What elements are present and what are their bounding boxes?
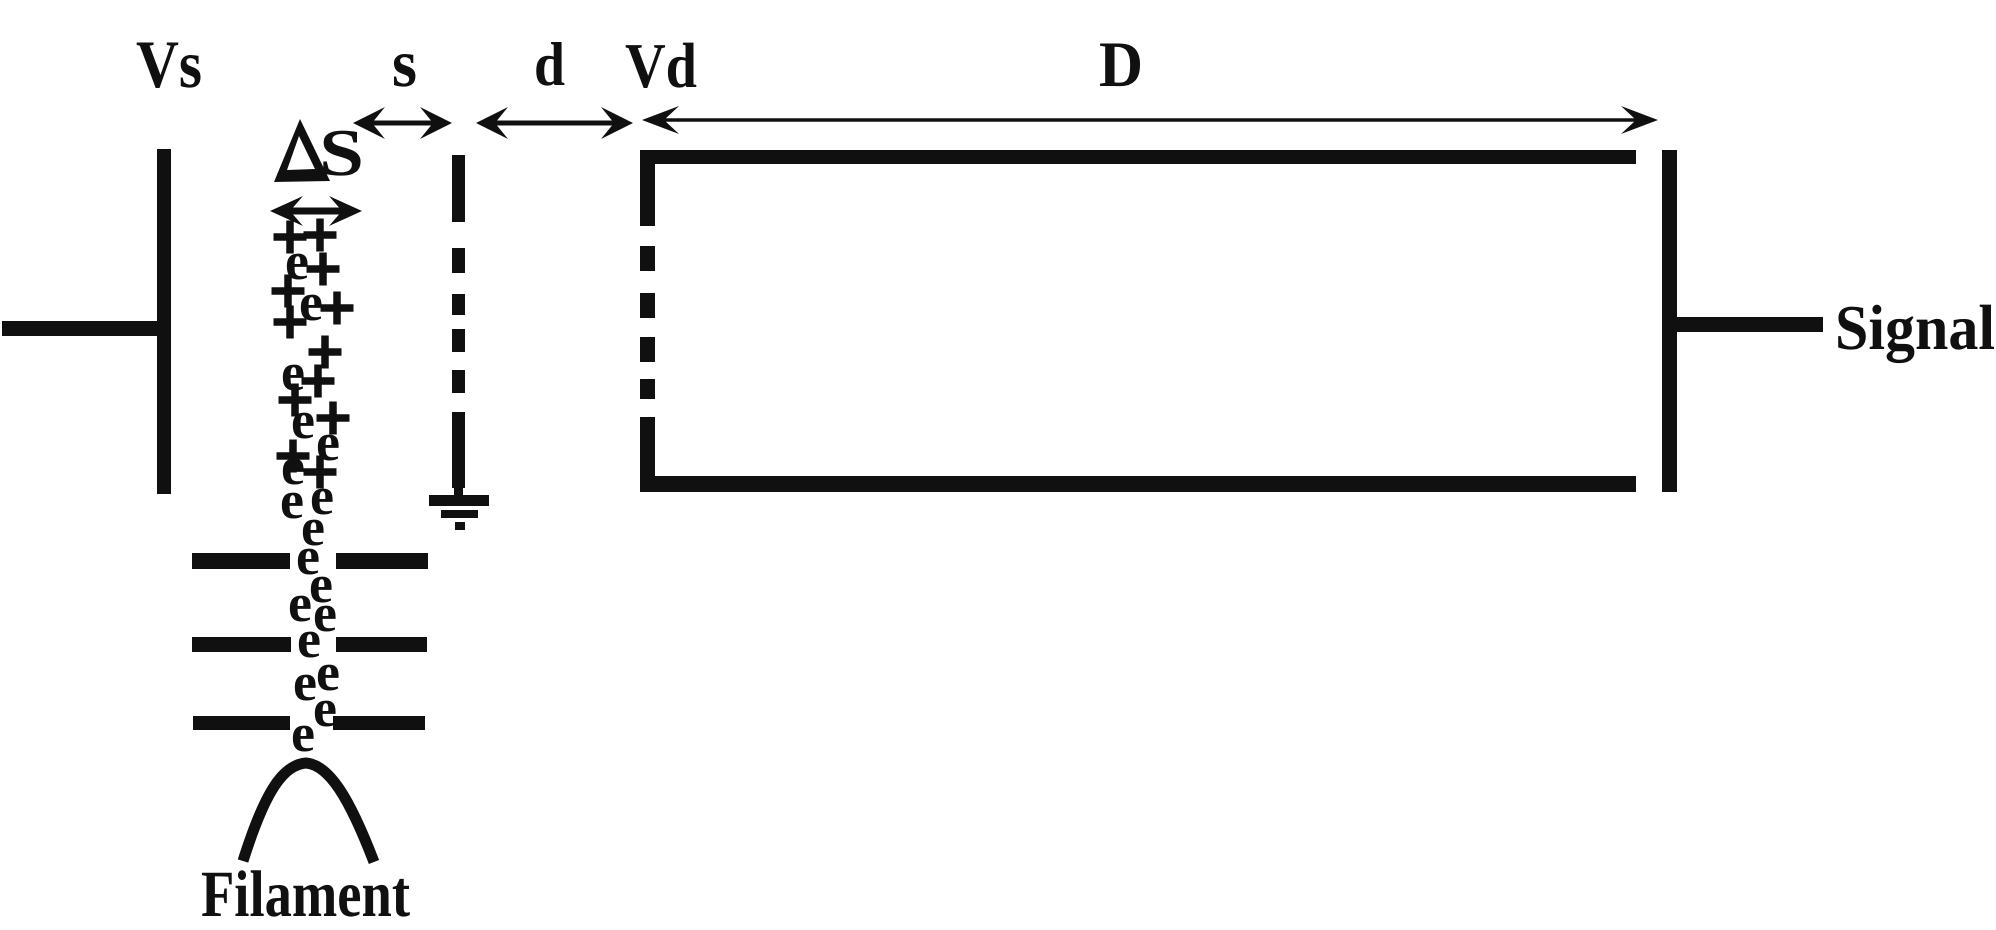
svg-text:e: e [291, 703, 315, 763]
svg-text:Vd: Vd [625, 30, 697, 101]
svg-text:e: e [316, 412, 340, 472]
svg-text:Vs: Vs [136, 26, 202, 102]
svg-text:e: e [299, 272, 323, 332]
svg-text:d: d [534, 31, 565, 99]
svg-text:S: S [319, 116, 364, 190]
svg-text:Filament: Filament [201, 858, 410, 930]
svg-text:D: D [1099, 29, 1143, 101]
svg-text:s: s [392, 25, 417, 101]
svg-text:e: e [313, 678, 337, 738]
svg-text:Signal: Signal [1835, 292, 1995, 364]
